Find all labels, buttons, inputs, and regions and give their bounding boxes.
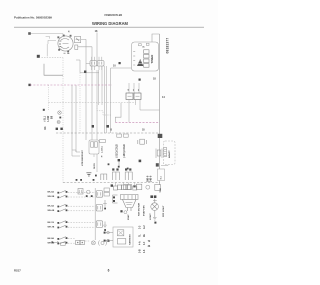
ground G1	[103, 200, 107, 206]
timer top pin marks	[139, 44, 142, 46]
wire start riser	[91, 47, 93, 140]
connector stack top right	[104, 188, 109, 192]
svg-text:1-6: 1-6	[144, 249, 146, 253]
svg-text:18: 18	[153, 78, 156, 81]
evaporator heater box	[86, 140, 99, 176]
svg-text:ADAPT: ADAPT	[168, 150, 171, 158]
wire timer feed	[152, 34, 160, 42]
svg-text:Publication No. 5995502399: Publication No. 5995502399	[14, 16, 52, 20]
wire main dashed bus	[56, 132, 160, 134]
timer contact 4	[144, 64, 149, 68]
wire gray dashed run	[48, 102, 135, 104]
door switch S3b	[48, 221, 103, 229]
svg-text:4: 4	[68, 30, 70, 34]
lower bus fittings	[111, 184, 161, 190]
svg-text:EVAP FAN: EVAP FAN	[143, 205, 146, 216]
svg-text:BK-5A: BK-5A	[48, 191, 55, 194]
sensor label column	[100, 140, 106, 159]
legend crossed circle	[91, 241, 95, 245]
door switch S1b	[48, 191, 103, 199]
svg-text:RS17: RS17	[14, 268, 21, 272]
wire dashed splice row	[42, 57, 64, 59]
svg-text:LOW: LOW	[47, 115, 50, 121]
defrost relay K1 drops	[129, 83, 139, 93]
svg-text:A-2: A-2	[143, 225, 146, 229]
light ground G3	[153, 210, 157, 220]
timer contact 3	[144, 59, 149, 63]
compressor pin 5	[67, 51, 69, 53]
wire timer lower feed	[111, 67, 132, 69]
svg-text:6: 6	[108, 269, 110, 273]
svg-text:HARNESS: HARNESS	[129, 234, 132, 245]
svg-text:WH-6B: WH-6B	[48, 210, 55, 212]
bus labels	[56, 128, 58, 130]
svg-text:BK-8A: BK-8A	[48, 237, 55, 240]
svg-text:WH-5B: WH-5B	[48, 196, 55, 198]
wire riser 18ga	[96, 33, 98, 61]
svg-text:(-13C): (-13C)	[101, 146, 103, 152]
splice cluster labels	[43, 85, 54, 130]
svg-text:4: 4	[101, 156, 103, 159]
svg-text:7L: 7L	[139, 234, 141, 237]
terminal strip components above bus	[101, 172, 132, 180]
door switch S2b	[48, 204, 103, 212]
timer box T1	[132, 42, 159, 71]
svg-text:18: 18	[142, 129, 145, 131]
legend arrow symbol	[53, 241, 59, 243]
motor lower ticks	[64, 52, 70, 54]
control box B1	[104, 227, 133, 247]
wire motor left bracket	[46, 37, 56, 57]
svg-text:EVAP: EVAP	[127, 214, 130, 220]
svg-text:HTR-DEFROST: HTR-DEFROST	[82, 150, 84, 166]
cold control columns	[117, 134, 129, 166]
splice wire nuts	[57, 111, 61, 124]
node pink run terminal	[28, 84, 30, 86]
svg-text:B: B	[110, 129, 112, 131]
wire L1 supply lead	[30, 34, 63, 36]
ice maker dashed box	[164, 141, 176, 165]
svg-text:24B-6: 24B-6	[150, 175, 153, 182]
svg-text:TMR: TMR	[160, 188, 162, 193]
svg-text:BK-7A: BK-7A	[48, 221, 55, 224]
fan connector boxes	[113, 185, 136, 190]
heater elbow	[72, 150, 80, 156]
timer motor TM	[137, 59, 143, 66]
svg-text:14: 14	[162, 96, 165, 99]
defrost relay contact B	[134, 93, 141, 100]
fan motor terminal marks	[120, 210, 122, 212]
legend small box	[61, 243, 66, 246]
wire pink dashed lower	[115, 121, 159, 123]
compressor pin 3	[70, 35, 72, 37]
wire start relay loop	[44, 64, 63, 75]
fan connector strip	[121, 195, 139, 200]
svg-text:WH-8B: WH-8B	[48, 242, 55, 244]
svg-text:(-1L): (-1L)	[43, 116, 46, 121]
fan motor left bracket	[113, 195, 118, 203]
door switch S1	[48, 190, 96, 193]
defrost relay contact A	[126, 93, 133, 100]
harness connector row	[78, 189, 93, 198]
label B	[119, 62, 121, 64]
wire run capacitor riser	[85, 39, 87, 140]
svg-text:N1: N1	[44, 126, 47, 130]
defrost thermostat bracket	[138, 139, 147, 144]
svg-text:FAN MOTOR: FAN MOTOR	[138, 202, 141, 216]
timer contact 1	[144, 50, 149, 54]
svg-text:2-3: 2-3	[139, 225, 141, 229]
wire staircase mid	[115, 103, 121, 123]
compressor pin 6	[58, 49, 60, 51]
svg-text:3-B: 3-B	[139, 249, 141, 253]
light terminal labels	[150, 195, 153, 198]
legend double square	[76, 240, 80, 244]
node B splice label	[37, 55, 40, 58]
wire left timer riser	[110, 68, 112, 133]
wire right bus	[159, 34, 161, 185]
svg-text:FRZ LIGHT: FRZ LIGHT	[163, 205, 165, 217]
svg-text:FFBD2407LB0: FFBD2407LB0	[105, 13, 123, 17]
svg-text:BK-6A: BK-6A	[48, 204, 55, 207]
svg-text:10: 10	[113, 65, 116, 68]
overload protector OL1	[75, 37, 81, 50]
part number marks	[108, 163, 110, 165]
header rule	[14, 26, 204, 28]
relay inner marks	[128, 95, 140, 97]
node square	[84, 71, 86, 73]
fan drops	[115, 183, 134, 187]
svg-text:(-18C)-COLD: (-18C)-COLD	[124, 144, 126, 158]
svg-text:72: 72	[148, 240, 151, 243]
wire overload to run cap	[78, 39, 92, 46]
evaporator fan motor M2	[123, 200, 137, 212]
lamp row output dot	[108, 240, 110, 242]
aux connector box	[158, 169, 165, 181]
svg-text:TIMER: TIMER	[150, 54, 154, 64]
light bulb LT1	[151, 199, 159, 211]
ground G2	[103, 222, 107, 228]
wire dotted riser	[79, 73, 81, 133]
lamp switch S4	[48, 237, 75, 240]
wire relay out right	[140, 100, 160, 111]
compressor pin 2	[63, 35, 65, 37]
svg-text:4-A: 4-A	[138, 241, 141, 245]
bus tick labels	[76, 179, 78, 181]
defrost limit switch	[156, 149, 168, 167]
svg-text:08181377: 08181377	[166, 38, 170, 54]
svg-text:WH-7B: WH-7B	[48, 226, 55, 228]
wire defrost heater risers	[72, 85, 76, 152]
switch bus vertical	[94, 188, 96, 240]
wire lower dashed bus	[63, 182, 160, 184]
ground G2 dot	[104, 229, 106, 231]
strip labels	[112, 168, 114, 170]
svg-text:B8: B8	[51, 115, 54, 119]
wire main neutral dotted riser	[62, 58, 64, 183]
svg-text:2E: 2E	[144, 234, 146, 237]
legend lamp symbol	[99, 240, 107, 245]
door switch S2	[48, 204, 96, 207]
svg-text:5: 5	[128, 90, 130, 92]
svg-text:3-0: 3-0	[144, 241, 146, 245]
wire pink dashed run	[30, 84, 112, 86]
timer pins	[133, 52, 135, 66]
wire staircase left	[97, 103, 111, 115]
label B timer	[139, 79, 141, 81]
svg-text:36: 36	[148, 245, 151, 248]
compressor pin 1	[57, 36, 59, 38]
connector plug CP1	[90, 57, 104, 70]
wire relay out left	[128, 100, 130, 123]
lamp switch S4b	[48, 241, 90, 244]
svg-text:DEFR: DEFR	[94, 163, 96, 169]
svg-text:18: 18	[95, 30, 98, 33]
node L1 terminal	[28, 32, 31, 35]
svg-text:LIGHT: LIGHT	[150, 213, 152, 220]
svg-text:36B-8: 36B-8	[147, 175, 149, 182]
svg-text:WIRING DIAGRAM: WIRING DIAGRAM	[92, 21, 129, 26]
svg-text:(-21C)-COLD: (-21C)-COLD	[117, 144, 119, 158]
ground G1 dot	[104, 208, 106, 210]
timer contact 2	[144, 54, 149, 58]
node X mark	[139, 160, 142, 163]
door switch S3	[48, 221, 96, 224]
wire relay out mid	[135, 100, 137, 106]
compressor motor M1	[58, 36, 73, 51]
wire connector drops	[76, 60, 107, 172]
